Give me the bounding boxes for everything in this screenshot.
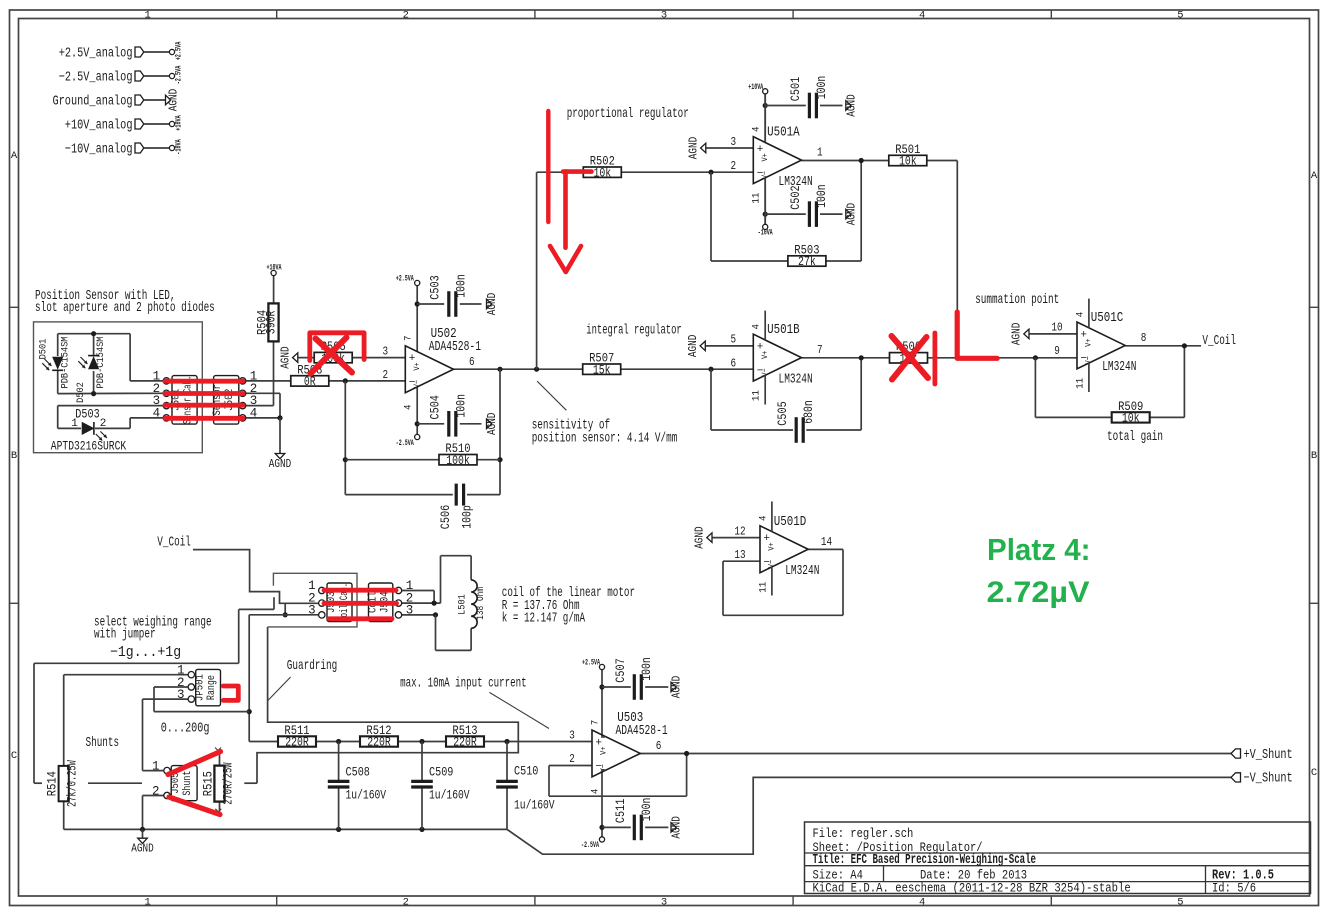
svg-text:Ground_analog: Ground_analog [53, 93, 133, 109]
svg-text:-2.5VA: -2.5VA [396, 439, 414, 448]
svg-text:Guardring: Guardring [287, 658, 337, 674]
svg-text:D503: D503 [75, 408, 99, 422]
svg-text:AGND: AGND [845, 94, 858, 116]
svg-text:PDB-C154SM: PDB-C154SM [60, 337, 72, 389]
svg-text:D502: D502 [75, 382, 87, 403]
svg-text:max. 10mA input current: max. 10mA input current [400, 675, 526, 691]
svg-text:220R: 220R [285, 736, 309, 750]
svg-text:100p: 100p [461, 505, 475, 529]
svg-text:V+: V+ [760, 153, 770, 161]
svg-text:10: 10 [1051, 320, 1062, 334]
svg-text:10k: 10k [899, 155, 917, 169]
svg-text:2: 2 [731, 159, 737, 173]
svg-text:U501B: U501B [767, 323, 800, 338]
svg-text:B: B [1311, 450, 1317, 462]
svg-text:AGND: AGND [671, 816, 684, 838]
svg-text:220R: 220R [367, 736, 391, 750]
svg-text:15k: 15k [593, 363, 611, 377]
svg-text:Shunts: Shunts [86, 735, 120, 751]
svg-text:C510: C510 [514, 765, 538, 779]
svg-text:2: 2 [383, 368, 389, 382]
svg-text:AGND: AGND [1011, 323, 1024, 345]
svg-text:8: 8 [1141, 331, 1147, 345]
svg-text:390R: 390R [265, 310, 279, 334]
svg-text:APTD3216SURCK: APTD3216SURCK [51, 440, 127, 454]
svg-text:AGND: AGND [486, 293, 499, 315]
svg-text:proportional regulator: proportional regulator [567, 106, 689, 122]
svg-text:100k: 100k [446, 454, 470, 468]
svg-text:AGND: AGND [687, 335, 700, 357]
svg-text:7: 7 [403, 336, 415, 342]
svg-text:C: C [1311, 767, 1317, 779]
svg-text:Title: EFC Based Precision-Wei: Title: EFC Based Precision-Weighing-Scal… [813, 853, 1037, 868]
svg-text:KiCad E.D.A. eeschema (2011-1: KiCad E.D.A. eeschema (2011-12-28 BZR 32… [813, 880, 1131, 895]
svg-text:2: 2 [403, 897, 409, 909]
svg-text:11: 11 [751, 390, 763, 401]
svg-text:AGND: AGND [269, 458, 291, 471]
svg-text:4: 4 [250, 406, 258, 420]
svg-text:C502: C502 [789, 185, 803, 209]
svg-text:C507: C507 [614, 658, 628, 682]
svg-text:+10VA: +10VA [748, 83, 763, 92]
svg-text:1: 1 [144, 10, 150, 22]
svg-text:V−: V− [599, 764, 609, 772]
svg-text:V+: V+ [1084, 338, 1094, 346]
svg-text:A: A [11, 150, 18, 162]
svg-text:-10VA: -10VA [758, 228, 773, 237]
svg-text:100n: 100n [640, 798, 654, 822]
svg-text:V+: V+ [412, 362, 422, 370]
svg-text:9: 9 [1054, 344, 1060, 358]
svg-text:6: 6 [731, 356, 737, 370]
svg-text:total gain: total gain [1107, 429, 1163, 445]
svg-text:PDB-C154SM: PDB-C154SM [95, 337, 107, 389]
svg-text:6: 6 [656, 739, 662, 753]
svg-text:2: 2 [100, 418, 107, 430]
svg-text:1u/160V: 1u/160V [346, 789, 387, 803]
svg-text:-2.5VA: -2.5VA [175, 66, 184, 85]
svg-text:100n: 100n [815, 184, 829, 208]
svg-text:+2.5V_analog: +2.5V_analog [59, 45, 133, 61]
svg-text:k = 12.147 g/mA: k = 12.147 g/mA [502, 611, 586, 627]
svg-text:5: 5 [1177, 897, 1183, 909]
svg-text:+10V_analog: +10V_analog [65, 117, 133, 133]
svg-text:C503: C503 [429, 275, 443, 299]
svg-text:3: 3 [661, 897, 667, 909]
svg-text:Platz 4:: Platz 4: [987, 532, 1091, 567]
svg-text:Sensor: Sensor [212, 384, 224, 415]
svg-text:ADA4528-1: ADA4528-1 [616, 724, 668, 739]
svg-text:B: B [11, 450, 17, 462]
svg-text:3: 3 [661, 10, 667, 22]
svg-text:ADA4528-1: ADA4528-1 [429, 340, 481, 355]
svg-text:1u/160V: 1u/160V [514, 799, 555, 813]
svg-text:7: 7 [589, 720, 601, 726]
svg-text:+V_Shunt: +V_Shunt [1244, 747, 1293, 763]
svg-text:LM324N: LM324N [1102, 360, 1136, 375]
svg-text:position sensor: 4.14 V/mm: position sensor: 4.14 V/mm [532, 430, 678, 446]
svg-text:R514: R514 [46, 771, 60, 796]
svg-text:V_Coil: V_Coil [157, 535, 191, 551]
svg-text:integral regulator: integral regulator [586, 322, 681, 338]
svg-text:R515: R515 [201, 771, 215, 796]
svg-text:7: 7 [817, 343, 823, 357]
svg-text:2: 2 [152, 785, 160, 799]
svg-text:JP501: JP501 [195, 674, 207, 701]
svg-text:4: 4 [751, 324, 763, 330]
svg-text:0...200g: 0...200g [161, 721, 210, 737]
svg-text:680n: 680n [802, 400, 816, 424]
svg-text:4: 4 [403, 404, 415, 410]
svg-text:220R: 220R [453, 736, 477, 750]
svg-text:4: 4 [919, 10, 925, 22]
svg-text:10k: 10k [1122, 412, 1140, 426]
svg-text:100n: 100n [815, 76, 829, 100]
svg-text:Range: Range [206, 675, 218, 700]
svg-text:1: 1 [71, 418, 78, 430]
svg-text:2.72µV: 2.72µV [987, 576, 1090, 609]
svg-text:13: 13 [734, 548, 745, 562]
svg-text:5: 5 [1177, 10, 1183, 22]
svg-text:-2.5VA: -2.5VA [581, 841, 599, 850]
svg-text:27k: 27k [798, 255, 816, 269]
svg-text:3: 3 [406, 603, 414, 617]
svg-text:slot aperture and 2 photo diod: slot aperture and 2 photo diodes [35, 300, 215, 316]
svg-text:summation point: summation point [975, 292, 1059, 308]
svg-text:with jumper: with jumper [94, 627, 156, 643]
svg-text:AGND: AGND [694, 526, 707, 548]
svg-text:AGND: AGND [671, 676, 684, 698]
svg-text:1: 1 [144, 897, 150, 909]
svg-text:U501C: U501C [1091, 311, 1124, 326]
svg-text:100n: 100n [455, 394, 469, 418]
svg-text:Id: 5/6: Id: 5/6 [1212, 880, 1256, 895]
svg-text:1: 1 [152, 760, 160, 774]
svg-text:100n: 100n [455, 274, 469, 298]
svg-text:1: 1 [817, 146, 823, 160]
svg-text:LM324N: LM324N [785, 564, 819, 579]
svg-text:C501: C501 [789, 77, 803, 101]
svg-text:−2.5V_analog: −2.5V_analog [59, 69, 133, 85]
svg-text:AGND: AGND [131, 843, 153, 856]
svg-text:D501: D501 [38, 339, 50, 360]
svg-text:U501A: U501A [767, 126, 800, 141]
svg-text:1u/160V: 1u/160V [429, 789, 470, 803]
svg-text:3: 3 [308, 603, 316, 617]
svg-text:4: 4 [589, 789, 601, 795]
svg-text:+10VA: +10VA [175, 115, 184, 131]
svg-text:AGND: AGND [168, 89, 181, 111]
svg-text:3: 3 [569, 728, 575, 742]
svg-text:4: 4 [919, 897, 925, 909]
svg-text:+2.5VA: +2.5VA [396, 275, 414, 284]
svg-text:AGND: AGND [687, 137, 700, 159]
svg-text:138 Ohm: 138 Ohm [475, 587, 487, 620]
svg-text:C504: C504 [429, 395, 443, 419]
svg-text:12: 12 [734, 524, 745, 538]
svg-text:V+: V+ [767, 542, 777, 550]
svg-text:C506: C506 [439, 505, 453, 529]
svg-text:−10V_analog: −10V_analog [65, 141, 133, 157]
svg-text:−1g...+1g: −1g...+1g [110, 645, 181, 661]
svg-text:6: 6 [469, 355, 475, 369]
svg-text:−V_Shunt: −V_Shunt [1244, 771, 1293, 787]
svg-text:4: 4 [751, 126, 763, 132]
svg-text:3: 3 [383, 344, 389, 358]
svg-text:C: C [11, 750, 17, 762]
svg-text:100n: 100n [640, 657, 654, 681]
svg-text:V−: V− [412, 380, 422, 388]
svg-text:2: 2 [569, 752, 575, 766]
svg-text:LM324N: LM324N [779, 372, 813, 387]
svg-text:V_Coil: V_Coil [1202, 333, 1236, 349]
svg-text:C511: C511 [614, 799, 628, 823]
svg-text:File: regler.sch: File: regler.sch [813, 826, 914, 841]
svg-text:0R: 0R [304, 375, 316, 389]
svg-text:11: 11 [757, 582, 769, 593]
svg-text:L501: L501 [457, 594, 469, 615]
svg-text:-10VA: -10VA [175, 139, 184, 155]
svg-text:V+: V+ [599, 746, 609, 754]
svg-text:11: 11 [1074, 378, 1086, 389]
svg-text:C508: C508 [346, 766, 370, 780]
svg-text:C509: C509 [429, 766, 453, 780]
svg-text:U501D: U501D [774, 515, 807, 530]
svg-text:Shunt: Shunt [182, 771, 194, 796]
svg-text:270R/25W: 270R/25W [222, 762, 236, 805]
svg-text:AGND: AGND [845, 203, 858, 225]
svg-text:4: 4 [153, 406, 161, 420]
svg-text:3: 3 [177, 688, 185, 702]
svg-text:3: 3 [731, 135, 737, 149]
svg-text:4: 4 [757, 516, 769, 522]
svg-text:10k: 10k [593, 166, 611, 180]
svg-text:11: 11 [751, 193, 763, 204]
svg-text:+10VA: +10VA [267, 264, 282, 273]
svg-text:4: 4 [1074, 312, 1086, 318]
svg-text:+2.5VA: +2.5VA [175, 42, 184, 61]
svg-text:2: 2 [403, 10, 409, 22]
svg-text:5: 5 [731, 333, 737, 347]
svg-text:J505: J505 [170, 773, 182, 794]
svg-text:27k/0.25W: 27k/0.25W [66, 760, 80, 807]
svg-text:14: 14 [821, 535, 832, 549]
svg-text:V+: V+ [760, 351, 770, 359]
svg-text:AGND: AGND [279, 346, 292, 368]
svg-text:+2.5VA: +2.5VA [582, 659, 600, 668]
svg-text:C505: C505 [776, 401, 790, 425]
svg-text:A: A [1311, 170, 1318, 182]
svg-text:AGND: AGND [486, 413, 499, 435]
